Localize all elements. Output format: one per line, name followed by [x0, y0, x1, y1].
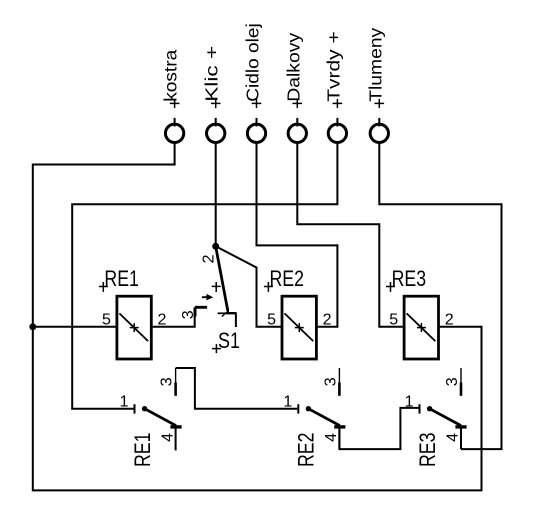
wire kostra junction to RE1 coil pin 5	[33, 326, 117, 328]
svg-text:Dalkovy: Dalkovy	[283, 33, 303, 102]
relay coil RE1	[117, 296, 151, 359]
relay coil RE2	[282, 296, 316, 359]
label RE2 (contact)	[294, 433, 319, 468]
svg-text:2: 2	[445, 311, 454, 328]
svg-text:4: 4	[323, 433, 340, 442]
svg-text:Klic +: Klic +	[202, 46, 222, 102]
junction kostra / RE1 coil pin 5	[29, 323, 36, 330]
terminal pad kostra	[165, 118, 183, 143]
pin number 4 of RE3 contact	[445, 433, 462, 442]
label Tvrdy +	[323, 31, 343, 102]
pin number 2 of RE2 coil	[323, 311, 332, 328]
wire RE1 coil pin 2 to S1 pin 3	[151, 308, 194, 327]
svg-text:Tvrdy +: Tvrdy +	[323, 31, 343, 102]
svg-text:2: 2	[200, 254, 217, 263]
svg-text:3: 3	[444, 377, 461, 386]
label kostra	[161, 50, 181, 102]
wire RE2 contact pin 4 to RE3 contact pin 1	[339, 408, 419, 449]
pin number 3 of RE1 contact	[159, 377, 176, 386]
svg-text:2: 2	[158, 311, 167, 328]
svg-text:kostra: kostra	[161, 50, 181, 102]
wire RE1 contact pin 3 to RE2 contact pin 1	[176, 368, 298, 409]
terminal pad Cidlo olej	[247, 118, 265, 143]
pin number 3 of S1	[180, 310, 197, 319]
label S1	[218, 328, 240, 353]
svg-text:5: 5	[389, 311, 398, 328]
svg-text:S1: S1	[218, 328, 240, 353]
pin number 5 of RE1 coil	[102, 311, 111, 328]
svg-text:3: 3	[322, 377, 339, 386]
relay coil RE3	[404, 296, 438, 359]
svg-text:1: 1	[405, 393, 414, 410]
label RE3 (coil)	[392, 266, 427, 291]
origin cross of label RE2	[264, 282, 273, 292]
terminal pad Tvrdy +	[328, 118, 346, 143]
pin number 2 of RE3 coil	[445, 311, 454, 328]
origin cross of S1	[212, 282, 221, 292]
origin cross of terminal Tlumeny	[375, 99, 385, 108]
wire Cidlo olej terminal down, right, down to RE2 coil pin 2	[257, 143, 338, 327]
svg-text:Cidlo olej: Cidlo olej	[243, 23, 263, 102]
pin number 3 of RE2 contact	[322, 377, 339, 386]
svg-text:RE1: RE1	[130, 433, 155, 468]
pin number 2 of S1	[200, 254, 217, 263]
junction node Klic+ / S1 pin 2	[212, 243, 219, 250]
wire Dalkovy terminal down, right, down to RE3 coil pin 5	[297, 143, 404, 327]
origin cross of terminal Cidlo olej	[252, 99, 262, 108]
actuator arrow of S1	[202, 294, 213, 301]
pin number 1 of RE3 contact	[405, 393, 414, 410]
svg-text:1: 1	[120, 393, 129, 410]
wire Klic + terminal down to S1 junction	[215, 143, 217, 247]
relay contact RE2	[298, 368, 345, 449]
pin number 4 of RE1 contact	[159, 433, 176, 442]
svg-text:3: 3	[180, 310, 197, 319]
svg-text:RE3: RE3	[392, 266, 427, 291]
pin number 1 of RE1 contact	[120, 393, 129, 410]
pin number 1 of S1	[218, 313, 226, 316]
label Cidlo olej	[243, 23, 263, 102]
label Klic +	[202, 46, 222, 102]
svg-text:2: 2	[323, 311, 332, 328]
pin number 1 of RE2 contact	[283, 393, 292, 410]
terminal pad Tlumeny	[370, 118, 388, 143]
S1 pin 1 contact bar	[226, 312, 237, 314]
label Dalkovy	[283, 33, 303, 102]
svg-text:4: 4	[159, 433, 176, 442]
pin number 5 of RE3 coil	[389, 311, 398, 328]
origin cross of terminal Dalkovy	[293, 99, 303, 108]
pin number 2 of RE1 coil	[158, 311, 167, 328]
label Tlumeny	[365, 28, 385, 102]
svg-text:4: 4	[445, 433, 462, 442]
wire S1 junction diagonal down to RE2 coil pin 5	[216, 246, 282, 326]
terminal pad Dalkovy	[288, 118, 306, 143]
relay contact RE1	[135, 368, 182, 450]
S1 pin 3 contact bar	[195, 306, 207, 309]
origin cross of terminal Tvrdy +	[333, 99, 343, 108]
pin number 5 of RE2 coil	[267, 311, 276, 328]
S1 pin 1 stub	[235, 313, 237, 327]
pin number 3 of RE3 contact	[444, 377, 461, 386]
wire Tlumeny terminal down, right, down right side to RE3 contact pin 4	[379, 143, 501, 450]
relay contact RE3	[420, 368, 467, 449]
wire kostra net: terminal down, left, down left side, across bottom, up right side to RE3 coil pin 2	[33, 143, 482, 491]
svg-text:5: 5	[267, 311, 276, 328]
svg-text:RE3: RE3	[415, 433, 440, 468]
svg-text:Tlumeny: Tlumeny	[365, 28, 385, 102]
svg-text:RE2: RE2	[294, 433, 319, 468]
svg-text:RE1: RE1	[104, 266, 138, 291]
origin cross of label S1	[212, 344, 221, 353]
label RE1 (coil)	[104, 266, 138, 291]
origin cross of label RE3	[386, 282, 395, 292]
svg-text:3: 3	[159, 377, 176, 386]
svg-text:1: 1	[283, 393, 292, 410]
wire Tvrdy + terminal down, left, down left inner side to RE1 contact pin 1	[72, 143, 337, 409]
pin number 4 of RE2 contact	[323, 433, 340, 442]
origin cross of label RE1	[99, 282, 108, 292]
terminal pad Klic +	[207, 118, 225, 143]
origin cross of terminal Klic +	[211, 99, 221, 108]
label RE3 (contact)	[415, 433, 440, 468]
label RE1 (contact)	[130, 433, 155, 468]
label RE2 (coil)	[270, 266, 305, 291]
svg-text:RE2: RE2	[270, 266, 305, 291]
svg-text:5: 5	[102, 311, 111, 328]
switch S1 blade (pin 2 to pin 1)	[216, 249, 228, 311]
origin cross of terminal kostra	[170, 99, 180, 108]
